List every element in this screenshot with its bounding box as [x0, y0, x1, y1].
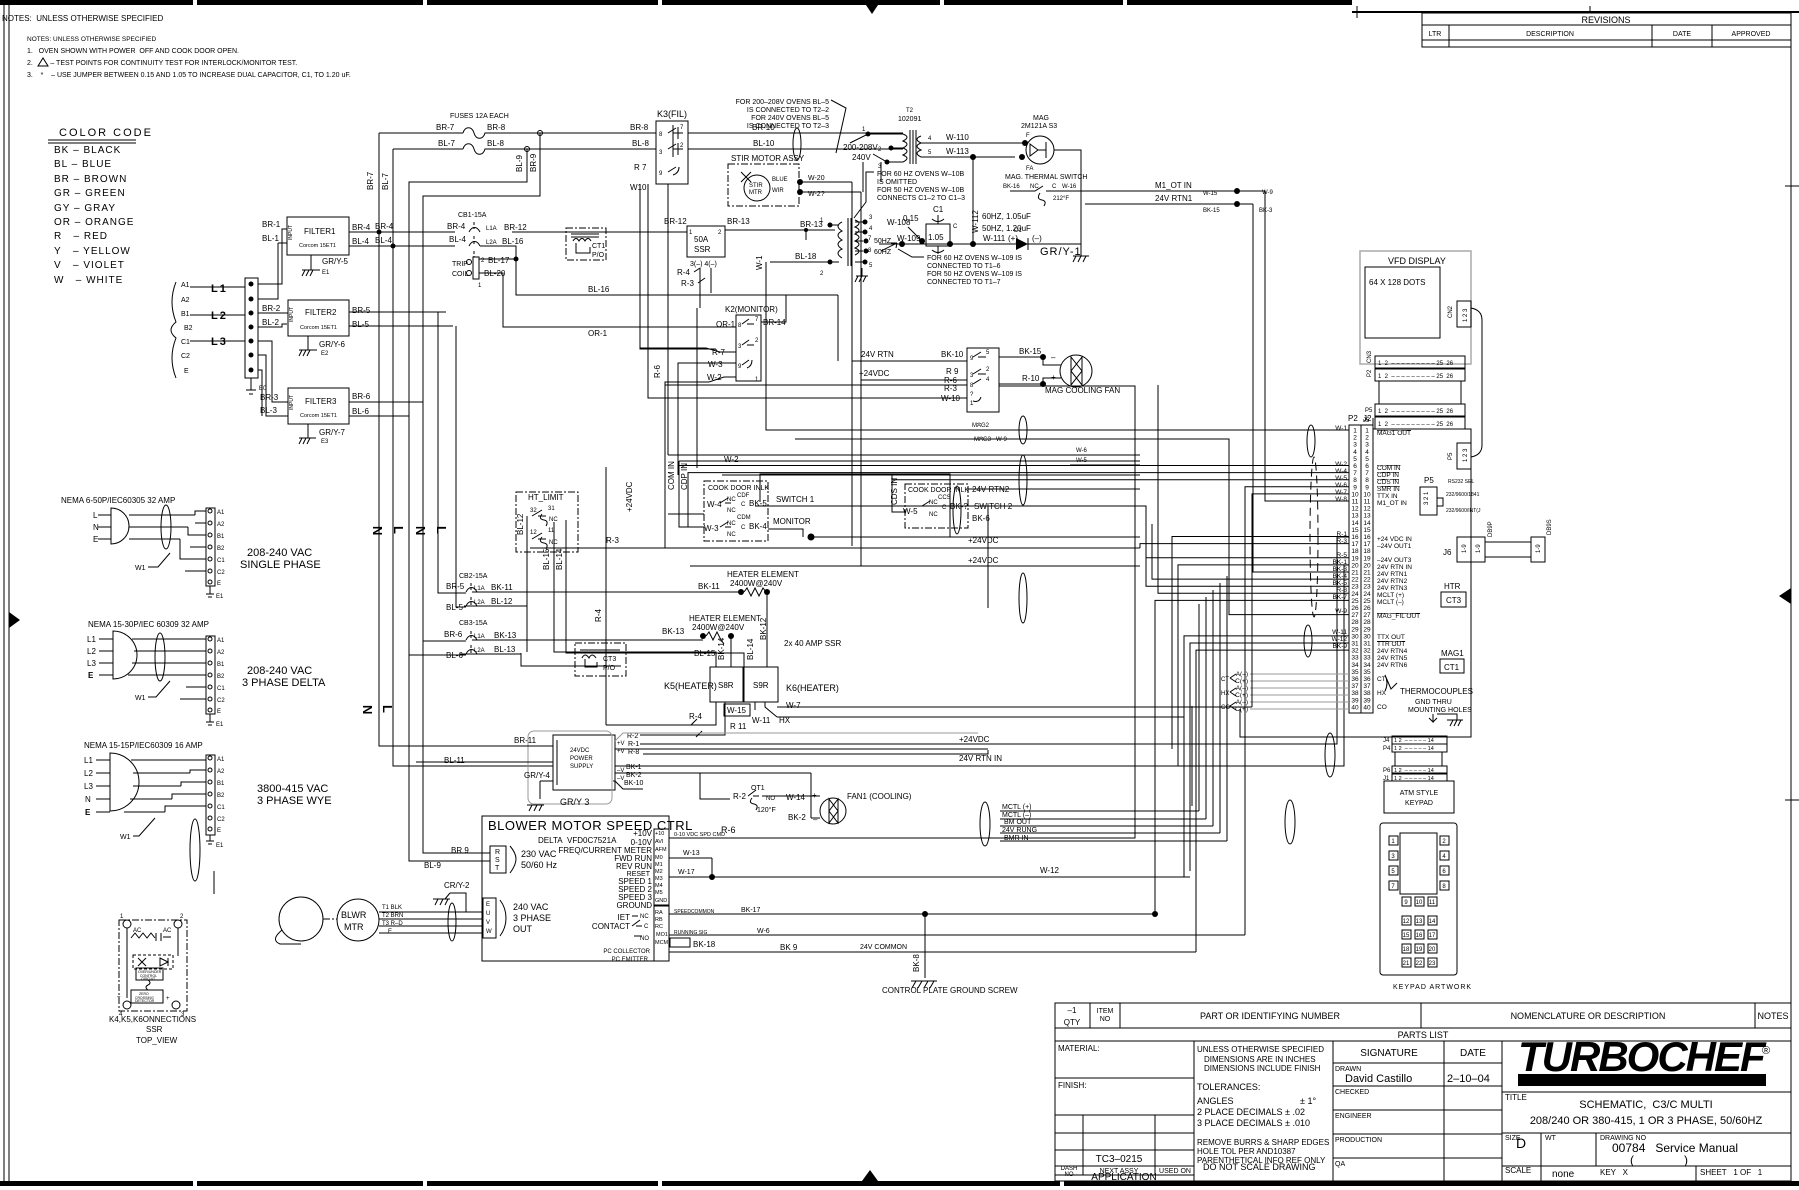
svg-text:CB2-15A: CB2-15A	[459, 573, 488, 580]
svg-text:CONNECTED TO T1–6: CONNECTED TO T1–6	[927, 263, 1001, 270]
svg-text:HX: HX	[1221, 691, 1229, 697]
svg-text:–1: –1	[1068, 1006, 1077, 1015]
svg-text:L1A: L1A	[486, 226, 497, 232]
svg-text:KEYPAD ARTWORK: KEYPAD ARTWORK	[1393, 984, 1472, 991]
svg-text:FA: FA	[1026, 166, 1033, 172]
svg-text:BK-15: BK-15	[1203, 208, 1220, 214]
svg-text:33: 33	[1363, 655, 1371, 662]
svg-text:26: 26	[1363, 605, 1371, 612]
svg-text:BL-5: BL-5	[446, 603, 463, 612]
svg-text:(–): (–)	[1032, 234, 1042, 243]
svg-text:E: E	[486, 902, 490, 908]
svg-text:A2: A2	[217, 650, 225, 656]
svg-text:REV RUN: REV RUN	[616, 862, 652, 871]
svg-text:R-8: R-8	[628, 749, 639, 756]
svg-text:W-9: W-9	[996, 437, 1008, 443]
svg-text:+24VDC: +24VDC	[859, 369, 890, 378]
svg-text:16: 16	[1363, 534, 1371, 541]
svg-text:BR-1: BR-1	[262, 220, 281, 229]
svg-text:50HZ, 1.20uF: 50HZ, 1.20uF	[982, 224, 1031, 233]
svg-text:29: 29	[1363, 626, 1371, 633]
svg-text:J6: J6	[1443, 548, 1452, 557]
svg-text:BK – BLACK: BK – BLACK	[54, 145, 121, 156]
svg-text:MTR: MTR	[344, 922, 364, 932]
svg-text:BK-4: BK-4	[749, 522, 767, 531]
svg-text:B1: B1	[217, 662, 225, 668]
svg-text:27: 27	[1363, 612, 1371, 619]
svg-text:E1: E1	[216, 843, 224, 849]
svg-text:13: 13	[1363, 513, 1371, 520]
svg-text:18: 18	[1363, 548, 1371, 555]
svg-text:23: 23	[1351, 584, 1359, 591]
svg-text:W-5: W-5	[1335, 475, 1347, 482]
svg-text:BL-13: BL-13	[494, 645, 516, 654]
svg-text:N: N	[85, 795, 91, 804]
svg-text:12: 12	[1363, 506, 1371, 513]
svg-text:FUSES 12A EACH: FUSES 12A EACH	[450, 113, 509, 120]
svg-text:19: 19	[1416, 947, 1423, 953]
svg-text:CO: CO	[1377, 704, 1387, 711]
svg-text:24V RTN4: 24V RTN4	[1377, 648, 1408, 655]
svg-text:GR/Y-4: GR/Y-4	[524, 771, 550, 780]
svg-text:31: 31	[548, 506, 555, 512]
svg-text:24V RTN IN: 24V RTN IN	[959, 754, 1002, 763]
svg-text:TTX OUT: TTX OUT	[1377, 634, 1405, 641]
svg-text:AFM: AFM	[655, 847, 667, 853]
svg-text:1-9: 1-9	[1536, 544, 1542, 553]
svg-text:DIMENSIONS ARE IN INCHES: DIMENSIONS ARE IN INCHES	[1204, 1055, 1316, 1064]
svg-text:CHECKED: CHECKED	[1335, 1089, 1369, 1096]
svg-text:BL-7: BL-7	[381, 173, 390, 190]
svg-text:ITEM: ITEM	[1097, 1008, 1114, 1015]
svg-text:DRAWN: DRAWN	[1335, 1066, 1361, 1073]
svg-text:19: 19	[1351, 555, 1359, 562]
svg-text:BK-9: BK-9	[1333, 643, 1348, 650]
svg-text:CDF: CDF	[737, 493, 750, 499]
svg-text:MCM: MCM	[655, 940, 669, 946]
svg-text:DETECTOR: DETECTOR	[135, 999, 155, 1003]
svg-text:OR-1: OR-1	[716, 320, 736, 329]
svg-text:M3: M3	[655, 876, 663, 882]
svg-text:230 VAC: 230 VAC	[521, 849, 557, 859]
svg-text:BR-6: BR-6	[444, 630, 463, 639]
svg-text:E1: E1	[322, 270, 330, 276]
svg-text:DESCRIPTION: DESCRIPTION	[1526, 31, 1574, 38]
svg-text:MCLT (–): MCLT (–)	[1377, 599, 1404, 606]
svg-text:NC: NC	[727, 532, 736, 538]
svg-text:B2: B2	[217, 546, 225, 552]
svg-text:4: 4	[1353, 449, 1357, 456]
svg-text:MAG_FIL OUT: MAG_FIL OUT	[1377, 613, 1420, 620]
svg-text:+24VDC: +24VDC	[968, 536, 999, 545]
svg-text:CONNECTED TO T1–7: CONNECTED TO T1–7	[927, 279, 1001, 286]
svg-text:2x 40 AMP SSR: 2x 40 AMP SSR	[784, 639, 841, 648]
svg-text:L2A: L2A	[486, 240, 497, 246]
svg-text:NOTES: UNLESS OTHERWISE SPECIF: NOTES: UNLESS OTHERWISE SPECIFIED	[27, 36, 156, 43]
svg-text:3 PHASE DELTA: 3 PHASE DELTA	[242, 677, 326, 689]
svg-text:39: 39	[1351, 697, 1359, 704]
svg-text:L: L	[434, 526, 449, 534]
svg-text:M1: M1	[655, 862, 663, 868]
svg-text:CN2: CN2	[1448, 305, 1454, 318]
svg-text:BK-10: BK-10	[941, 350, 964, 359]
svg-text:E1: E1	[216, 722, 224, 728]
svg-text:20: 20	[1363, 562, 1371, 569]
svg-text:BK-1: BK-1	[626, 764, 642, 771]
svg-text:E: E	[88, 671, 94, 680]
svg-text:BK-14: BK-14	[717, 637, 726, 660]
svg-text:E: E	[217, 709, 221, 715]
svg-text:MAG COOLING FAN: MAG COOLING FAN	[1045, 386, 1120, 395]
svg-text:–24V OUT3: –24V OUT3	[1377, 557, 1412, 564]
svg-text:25: 25	[1363, 598, 1371, 605]
svg-text:E: E	[388, 929, 392, 935]
svg-text:22: 22	[1363, 577, 1371, 584]
svg-text:CDM: CDM	[737, 515, 751, 521]
svg-text:212°F: 212°F	[1053, 196, 1069, 202]
svg-text:CR/Y-2: CR/Y-2	[444, 881, 470, 890]
svg-text:15: 15	[1403, 933, 1410, 939]
svg-text:B1: B1	[217, 534, 225, 540]
svg-text:1 2 3: 1 2 3	[1463, 448, 1469, 462]
svg-text:NOTES: NOTES	[1757, 1011, 1788, 1021]
svg-text:BK-17: BK-17	[741, 907, 761, 914]
svg-text:none: none	[1552, 1169, 1575, 1180]
svg-text:PART OR IDENTIFYING NUMBER: PART OR IDENTIFYING NUMBER	[1200, 1011, 1341, 1021]
svg-text:W-10: W-10	[941, 394, 961, 403]
svg-text:35: 35	[1363, 669, 1371, 676]
svg-text:N: N	[370, 526, 385, 535]
svg-text:J4: J4	[1383, 738, 1390, 744]
svg-text:BL-12: BL-12	[516, 513, 525, 535]
svg-text:22: 22	[1351, 577, 1359, 584]
svg-text:BL-1: BL-1	[262, 234, 279, 243]
svg-text:6: 6	[1353, 463, 1357, 470]
svg-text:34: 34	[1351, 662, 1359, 669]
svg-text:BR-4: BR-4	[352, 223, 371, 232]
svg-text:MONITOR: MONITOR	[773, 517, 811, 526]
svg-text:E: E	[85, 808, 91, 817]
svg-text:CDS IN: CDS IN	[890, 478, 899, 505]
svg-text:2400W@240V: 2400W@240V	[692, 623, 745, 632]
svg-text:FOR 60 HZ OVENS W–10B: FOR 60 HZ OVENS W–10B	[877, 171, 964, 178]
svg-text:31: 31	[1351, 641, 1359, 648]
svg-text:K5(HEATER): K5(HEATER)	[664, 681, 717, 691]
svg-text:L3: L3	[84, 782, 93, 791]
svg-text:1 2 – – – – – 14: 1 2 – – – – – 14	[1394, 746, 1434, 752]
svg-text:S8R: S8R	[718, 681, 734, 690]
svg-text:208-240 VAC: 208-240 VAC	[247, 665, 312, 677]
svg-text:GND THRU: GND THRU	[1415, 699, 1452, 706]
svg-text:KEY X: KEY X	[1600, 1168, 1629, 1177]
svg-text:W-11: W-11	[1332, 629, 1347, 636]
svg-text:HEATER ELEMENT: HEATER ELEMENT	[727, 570, 799, 579]
svg-text:NC: NC	[929, 500, 938, 506]
svg-text:NEMA 15-15P/IEC60309 16 AMP: NEMA 15-15P/IEC60309 16 AMP	[84, 741, 203, 750]
svg-text:NO: NO	[640, 936, 649, 942]
svg-text:QTY: QTY	[1064, 1018, 1081, 1027]
svg-text:14: 14	[1363, 520, 1371, 527]
svg-text:15: 15	[1351, 527, 1359, 534]
svg-text:BK-10: BK-10	[624, 780, 644, 787]
svg-text:26: 26	[1351, 605, 1359, 612]
svg-text:A2: A2	[181, 297, 190, 304]
svg-text:NOMENCLATURE OR DESCRIPTION: NOMENCLATURE OR DESCRIPTION	[1511, 1011, 1666, 1021]
svg-text:IS CONNECTED TO T2–2: IS CONNECTED TO T2–2	[747, 107, 829, 114]
svg-text:W-6: W-6	[1076, 448, 1088, 454]
svg-text:17: 17	[1351, 541, 1359, 548]
svg-text:GY – GRAY: GY – GRAY	[54, 203, 116, 214]
svg-text:U: U	[486, 911, 490, 917]
svg-text:24V RTN1: 24V RTN1	[1155, 194, 1193, 203]
svg-text:TTR OUT: TTR OUT	[1377, 641, 1405, 648]
svg-text:BK-11: BK-11	[491, 583, 513, 592]
svg-text:REVISIONS: REVISIONS	[1581, 15, 1630, 25]
svg-text:14: 14	[1351, 520, 1359, 527]
svg-text:17: 17	[1429, 933, 1436, 939]
svg-text:B1: B1	[181, 311, 190, 318]
svg-text:W-20: W-20	[808, 175, 825, 182]
svg-text:BL-10: BL-10	[753, 139, 775, 148]
svg-text:BR-3: BR-3	[260, 393, 279, 402]
svg-text:W-5: W-5	[903, 507, 918, 516]
svg-text:L2: L2	[87, 647, 96, 656]
svg-text:37: 37	[1363, 683, 1371, 690]
svg-text:200-208V: 200-208V	[843, 143, 878, 152]
svg-text:+V: +V	[617, 741, 625, 747]
svg-text:240 VAC: 240 VAC	[513, 902, 549, 912]
svg-text:R-1: R-1	[628, 741, 639, 748]
svg-text:3 PHASE: 3 PHASE	[513, 913, 551, 923]
svg-text:TOP_VIEW: TOP_VIEW	[136, 1036, 178, 1045]
svg-text:12: 12	[530, 530, 537, 536]
svg-text:11: 11	[1429, 900, 1436, 906]
svg-text:W-112: W-112	[971, 210, 980, 233]
svg-text:R-3: R-3	[944, 384, 957, 393]
svg-text:MAG. THERMAL SWITCH: MAG. THERMAL SWITCH	[1005, 174, 1087, 181]
svg-text:SUPPLY: SUPPLY	[570, 764, 593, 770]
svg-text:NC: NC	[727, 508, 736, 514]
svg-text:–: –	[1051, 353, 1056, 362]
svg-text:1.05: 1.05	[928, 233, 944, 242]
svg-text:8: 8	[1353, 477, 1357, 484]
svg-text:B2: B2	[184, 325, 193, 332]
svg-text:16: 16	[1416, 933, 1423, 939]
svg-text:W-13: W-13	[683, 850, 700, 857]
svg-text:A2: A2	[217, 522, 225, 528]
svg-text:GR/Y-5: GR/Y-5	[322, 257, 348, 266]
svg-text:BL-9: BL-9	[424, 861, 441, 870]
svg-text:MAG1 OUT: MAG1 OUT	[1377, 430, 1411, 437]
svg-text:THERMOCOUPLES: THERMOCOUPLES	[1400, 687, 1473, 696]
svg-text:R-6: R-6	[653, 365, 662, 378]
svg-text:A(–): A(–)	[1236, 699, 1248, 706]
svg-text:2. – TEST POINTS FOR C: 2. – TEST POINTS FOR CONTINUITY TEST FOR…	[27, 60, 297, 67]
svg-text:V – VIOLET: V – VIOLET	[54, 260, 125, 271]
svg-text:10: 10	[1351, 491, 1359, 498]
svg-text:F: F	[1026, 133, 1030, 139]
svg-text:APPLICATION: APPLICATION	[1091, 1172, 1156, 1183]
svg-text:6: 6	[1365, 463, 1369, 470]
svg-text:C(+): C(+)	[1235, 706, 1248, 713]
svg-text:10: 10	[1363, 491, 1371, 498]
svg-text:CDS IN: CDS IN	[1377, 479, 1399, 486]
svg-text:C(+): C(+)	[1235, 692, 1248, 699]
svg-text:GR/Y-7: GR/Y-7	[319, 428, 345, 437]
svg-text:GR – GREEN: GR – GREEN	[54, 188, 126, 199]
svg-text:C: C	[644, 924, 649, 930]
svg-text:CONTROL PLATE GROUND SCREW: CONTROL PLATE GROUND SCREW	[882, 986, 1018, 995]
svg-text:1: 1	[1365, 428, 1369, 435]
svg-text:POWER: POWER	[570, 756, 593, 762]
svg-text:K4,K5,K6ONNECTIONS: K4,K5,K6ONNECTIONS	[109, 1015, 196, 1024]
svg-text:W-6: W-6	[757, 928, 770, 935]
svg-text:+: +	[166, 996, 170, 1002]
svg-text:CB3-15A: CB3-15A	[459, 620, 488, 627]
svg-text:29: 29	[1351, 626, 1359, 633]
svg-text:240V: 240V	[852, 153, 871, 162]
svg-text:W-16: W-16	[1062, 184, 1077, 190]
svg-text:FOR 200–208V OVENS BL–5: FOR 200–208V OVENS BL–5	[736, 99, 829, 106]
svg-text:M4: M4	[655, 883, 663, 889]
svg-text:C: C	[953, 224, 958, 230]
svg-text:C: C	[741, 525, 746, 531]
svg-text:COLOR CODE: COLOR CODE	[59, 127, 153, 139]
svg-text:28: 28	[1351, 619, 1359, 626]
svg-text:TTX IN: TTX IN	[1377, 493, 1398, 500]
svg-text:BL – BLUE: BL – BLUE	[54, 159, 112, 170]
svg-text:MAG3: MAG3	[974, 437, 992, 443]
svg-text:FINISH:: FINISH:	[1058, 1081, 1086, 1090]
svg-text:J2: J2	[1363, 414, 1372, 423]
svg-text:SSR: SSR	[694, 245, 711, 254]
svg-text:11: 11	[1352, 499, 1359, 506]
svg-text:BL-12: BL-12	[491, 597, 513, 606]
svg-text:22: 22	[1416, 961, 1423, 967]
svg-text:T2: T2	[906, 108, 914, 114]
svg-text:W1: W1	[120, 834, 131, 841]
svg-text:BL-14: BL-14	[746, 638, 755, 660]
svg-text:BR-7: BR-7	[436, 123, 455, 132]
svg-text:BL-15: BL-15	[542, 548, 551, 570]
svg-text:BR-9: BR-9	[529, 153, 538, 172]
svg-text:NO: NO	[1100, 1016, 1111, 1023]
svg-text:+24VDC: +24VDC	[625, 481, 634, 512]
svg-text:BR 9: BR 9	[451, 846, 469, 855]
svg-text:L1: L1	[84, 756, 93, 765]
svg-text:K2(MONITOR): K2(MONITOR)	[725, 305, 778, 314]
svg-text:64 X 128 DOTS: 64 X 128 DOTS	[1369, 278, 1425, 287]
svg-text:W-1: W-1	[1335, 425, 1347, 432]
svg-text:BL-4: BL-4	[449, 235, 466, 244]
svg-text:7: 7	[1353, 470, 1357, 477]
svg-text:R – RED: R – RED	[54, 231, 108, 242]
svg-text:BR-12: BR-12	[664, 217, 687, 226]
svg-text:BL-16: BL-16	[502, 237, 524, 246]
svg-text:11: 11	[1364, 499, 1371, 506]
svg-text:RB: RB	[655, 917, 663, 923]
svg-text:E: E	[217, 581, 221, 587]
svg-text:60HZ, 1.05uF: 60HZ, 1.05uF	[982, 212, 1031, 221]
svg-text:W-17: W-17	[678, 869, 695, 876]
svg-text:P/O: P/O	[592, 252, 605, 259]
svg-text:30: 30	[1351, 633, 1359, 640]
svg-text:B2: B2	[217, 674, 225, 680]
svg-text:V: V	[486, 920, 490, 926]
svg-text:Corcom 15ET1: Corcom 15ET1	[300, 413, 337, 419]
svg-text:W-15: W-15	[1203, 191, 1218, 197]
svg-text:50HZ: 50HZ	[874, 238, 892, 245]
svg-text:BK-13: BK-13	[494, 631, 517, 640]
svg-text:+V: +V	[617, 749, 625, 755]
svg-text:W-111: W-111	[983, 234, 1006, 243]
svg-text:19: 19	[1363, 555, 1371, 562]
svg-text:AVI: AVI	[655, 839, 664, 845]
svg-text:CB1-15A: CB1-15A	[458, 212, 487, 219]
svg-text:E: E	[217, 828, 221, 834]
svg-text:R 7: R 7	[634, 163, 647, 172]
svg-text:N: N	[360, 705, 375, 714]
svg-text:DO NOT SCALE DRAWING: DO NOT SCALE DRAWING	[1203, 1162, 1316, 1172]
svg-text:P/O: P/O	[603, 665, 616, 672]
svg-text:BL-6: BL-6	[352, 407, 369, 416]
svg-text:DB9P: DB9P	[1488, 521, 1494, 537]
svg-text:2: 2	[1365, 435, 1369, 442]
svg-text:+: +	[812, 791, 817, 800]
svg-text:BK-16: BK-16	[1003, 184, 1020, 190]
svg-text:BL-9: BL-9	[515, 155, 524, 172]
svg-text:BL-4: BL-4	[352, 237, 369, 246]
svg-text:KEYPAD: KEYPAD	[1405, 800, 1433, 807]
svg-text:W-1: W-1	[755, 255, 764, 270]
svg-text:16: 16	[1351, 534, 1359, 541]
svg-text:BL-2: BL-2	[262, 318, 279, 327]
svg-text:W-2: W-2	[1335, 461, 1347, 468]
svg-text:TECHNOLOGIES INC: TECHNOLOGIES INC	[1580, 1078, 1714, 1085]
svg-text:E2: E2	[321, 351, 329, 357]
svg-text:W-5: W-5	[1076, 458, 1088, 464]
svg-text:± 1°: ± 1°	[1300, 1096, 1316, 1106]
svg-text:BL-18: BL-18	[795, 252, 817, 261]
svg-text:38: 38	[1363, 690, 1371, 697]
svg-text:CONNECTS C1–2 TO C1–3: CONNECTS C1–2 TO C1–3	[877, 195, 965, 202]
svg-text:C2: C2	[217, 698, 225, 704]
svg-text:A1: A1	[217, 510, 225, 516]
svg-text:L3: L3	[87, 659, 96, 668]
svg-text:13: 13	[1416, 919, 1423, 925]
svg-text:18: 18	[1351, 548, 1359, 555]
svg-text:L2A: L2A	[474, 600, 485, 606]
svg-text:BR-2: BR-2	[262, 304, 281, 313]
svg-text:3: 3	[1365, 442, 1369, 449]
svg-text:NO: NO	[1065, 1172, 1074, 1178]
svg-text:BR-7: BR-7	[366, 171, 375, 190]
svg-text:A1: A1	[217, 757, 225, 763]
svg-text:GND: GND	[655, 898, 667, 904]
svg-text:TRIP: TRIP	[452, 261, 468, 268]
svg-text:AC: AC	[163, 928, 172, 934]
svg-text:W-113: W-113	[946, 147, 969, 156]
svg-text:HT_LIMIT: HT_LIMIT	[528, 493, 564, 502]
svg-text:1: 1	[1353, 428, 1357, 435]
svg-text:L: L	[93, 511, 98, 520]
svg-text:B1: B1	[217, 781, 225, 787]
svg-text:C2: C2	[181, 353, 190, 360]
svg-text:REMOVE BURRS & SHARP EDGES: REMOVE BURRS & SHARP EDGES	[1197, 1138, 1329, 1147]
svg-text:R-2: R-2	[627, 733, 638, 740]
svg-text:W-4: W-4	[707, 500, 722, 509]
svg-text:12: 12	[1403, 919, 1410, 925]
